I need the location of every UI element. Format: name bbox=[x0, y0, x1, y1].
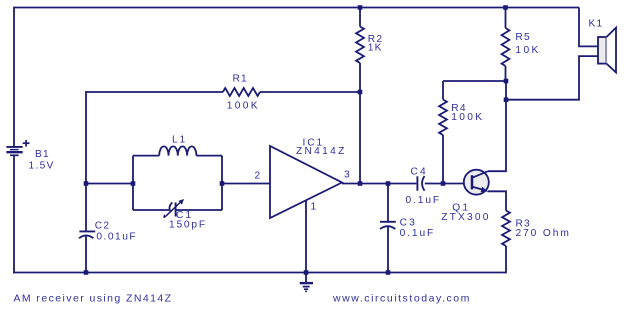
wire R1 row horizontal right segment bbox=[260, 91, 360, 93]
node C3 top junction bbox=[386, 181, 391, 186]
wire C2 bottom lead bbox=[85, 236, 87, 273]
variable capacitor C1 bbox=[164, 199, 184, 217]
wire pin 3 row (apex to C4) bbox=[342, 183, 416, 185]
svg-text:AM receiver using ZN414Z: AM receiver using ZN414Z bbox=[14, 292, 173, 304]
label C1 bbox=[176, 210, 193, 221]
tank circuit loop: bottom edge stubs bbox=[133, 209, 222, 211]
label 100K R4 bbox=[451, 112, 484, 123]
svg-text:ZN414Z: ZN414Z bbox=[296, 146, 347, 157]
node R4 base junction bbox=[441, 181, 446, 186]
label K1 bbox=[589, 19, 604, 30]
svg-text:ZTX300: ZTX300 bbox=[441, 212, 490, 223]
inductor L1 bbox=[159, 146, 196, 155]
tank circuit loop: left edge bbox=[132, 156, 134, 210]
svg-text:L1: L1 bbox=[172, 135, 187, 146]
resistor R2 bbox=[356, 8, 364, 184]
ground bbox=[300, 273, 313, 292]
svg-text:C2: C2 bbox=[95, 221, 110, 232]
node R5 top junction bbox=[503, 5, 508, 10]
wire left node vertical (x=86 from R1 down to C2) bbox=[85, 92, 87, 231]
label L1 bbox=[172, 135, 187, 146]
resistor R4 bbox=[439, 81, 447, 184]
svg-text:0.01uF: 0.01uF bbox=[96, 232, 137, 243]
wire pin 1 vertical to ground rail bbox=[305, 200, 307, 273]
node C2 bottom junction bbox=[84, 270, 89, 275]
pin number 1 bbox=[311, 201, 317, 212]
capacitor C2 bbox=[79, 231, 95, 238]
caption www.circuitstoday.com bbox=[332, 293, 471, 305]
op-amp IC1 ZN414Z triangle bbox=[270, 146, 342, 218]
pin number 3 bbox=[344, 170, 350, 181]
svg-text:C4: C4 bbox=[411, 166, 428, 177]
label Q1 bbox=[452, 203, 470, 214]
transistor Q1 emitter diagonal with arrow bbox=[472, 187, 488, 193]
node C3 bottom junction bbox=[386, 270, 391, 275]
svg-text:www.circuitstoday.com: www.circuitstoday.com bbox=[332, 293, 471, 305]
svg-text:C3: C3 bbox=[400, 218, 417, 229]
node pin3/R2 junction bbox=[358, 181, 363, 186]
label B1 bbox=[35, 149, 50, 160]
label 100K bbox=[227, 101, 260, 112]
wire R1 row horizontal left segment bbox=[86, 90, 223, 93]
label R1 bbox=[233, 73, 248, 84]
label 1K bbox=[368, 43, 383, 54]
wire C3 bottom lead bbox=[387, 226, 389, 272]
wire R4 top to right vertical bbox=[443, 80, 506, 82]
label 0.01uF bbox=[96, 232, 137, 243]
resistor R5 bbox=[502, 8, 510, 82]
wire left vertical upper (battery positive lead) bbox=[13, 7, 15, 146]
wire top rail bbox=[14, 7, 579, 9]
svg-text:0.1uF: 0.1uF bbox=[406, 195, 442, 206]
node left junction bbox=[84, 181, 89, 186]
svg-text:10K: 10K bbox=[515, 45, 540, 56]
battery B1 bbox=[6, 147, 22, 155]
wire bottom rail bbox=[13, 272, 506, 274]
label 270 Ohm bbox=[516, 228, 571, 239]
svg-text:1: 1 bbox=[311, 201, 317, 212]
resistor R3 bbox=[502, 211, 510, 274]
wire right vertical (R4 node down to collector corner) bbox=[488, 81, 506, 171]
svg-text:270 Ohm: 270 Ohm bbox=[516, 228, 571, 239]
label ZTX300 bbox=[441, 212, 490, 223]
battery plus sign bbox=[23, 140, 30, 147]
wire C3 branch vertical upper bbox=[387, 184, 389, 222]
node R2 top junction bbox=[358, 5, 363, 10]
wire C4 to base junction bbox=[425, 183, 472, 185]
transistor Q1 collector diagonal bbox=[472, 171, 488, 178]
label R2 bbox=[368, 34, 383, 45]
svg-text:K1: K1 bbox=[589, 19, 604, 30]
label C2 bbox=[95, 221, 110, 232]
svg-text:150pF: 150pF bbox=[169, 219, 207, 230]
wire speaker return bbox=[506, 56, 598, 100]
svg-text:R5: R5 bbox=[515, 32, 530, 43]
node tank right junction bbox=[220, 181, 225, 186]
svg-text:0.1uF: 0.1uF bbox=[400, 228, 436, 239]
label ZN414Z bbox=[296, 146, 347, 157]
svg-text:1K: 1K bbox=[368, 43, 383, 54]
label R5 bbox=[515, 32, 530, 43]
label R4 bbox=[451, 103, 466, 114]
svg-text:2: 2 bbox=[255, 171, 261, 182]
node pin1 ground junction bbox=[304, 270, 309, 275]
label 1.5V bbox=[29, 160, 55, 171]
svg-text:1.5V: 1.5V bbox=[29, 160, 55, 171]
label 0.1uF C4 bbox=[406, 195, 442, 206]
node R4 top junction bbox=[504, 79, 509, 84]
transistor Q1 circle bbox=[464, 170, 489, 195]
tank circuit loop: right edge bbox=[221, 156, 223, 210]
pin number 2 bbox=[255, 171, 261, 182]
node tank left junction bbox=[131, 181, 136, 186]
capacitor C4 bbox=[417, 176, 424, 191]
tank circuit loop: top edge stubs bbox=[133, 155, 222, 157]
label IC1 bbox=[303, 138, 325, 149]
svg-text:100K: 100K bbox=[227, 101, 260, 112]
node R1/R2 junction bbox=[358, 90, 363, 95]
svg-text:3: 3 bbox=[344, 170, 350, 181]
wire pin 2 (tank to IC input) bbox=[222, 183, 270, 185]
label 10K bbox=[515, 45, 540, 56]
wire speaker feed (top rail down to speaker) bbox=[579, 8, 598, 47]
svg-text:100K: 100K bbox=[451, 112, 484, 123]
label 150pF bbox=[169, 219, 207, 230]
label C3 bbox=[400, 218, 417, 229]
speaker K1 bbox=[598, 28, 616, 73]
label R3 bbox=[516, 218, 531, 229]
wire left vertical lower (battery negative lead) bbox=[13, 155, 15, 273]
wire stub to tank (left node row) bbox=[86, 183, 133, 185]
resistor R1 bbox=[223, 88, 260, 96]
svg-text:R1: R1 bbox=[233, 73, 248, 84]
wire emitter to R3 bbox=[488, 191, 507, 210]
capacitor C3 bbox=[380, 222, 396, 229]
label C4 bbox=[411, 166, 428, 177]
node speaker return junction bbox=[504, 97, 509, 102]
transistor Q1 base bar bbox=[471, 175, 474, 189]
caption AM receiver using ZN414Z bbox=[14, 292, 173, 304]
svg-text:B1: B1 bbox=[35, 149, 50, 160]
label 0.1uF C3 bbox=[400, 228, 436, 239]
